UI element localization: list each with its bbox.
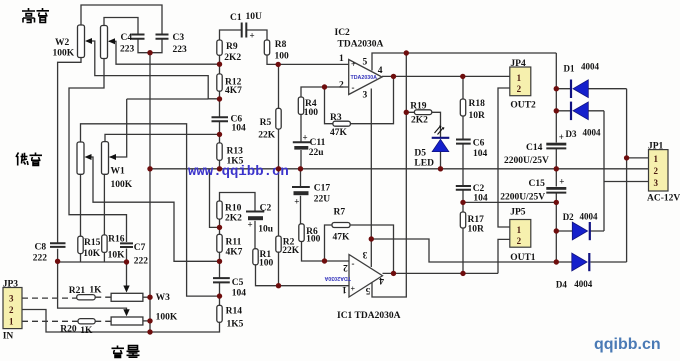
svg-text:2: 2	[517, 236, 522, 246]
capacitor C7	[120, 243, 133, 247]
resistor R9	[217, 40, 222, 55]
label C5 104	[232, 278, 247, 299]
wire C1 right to R8 top	[247, 30, 267, 40]
label W1 100K	[111, 167, 133, 191]
svg-text:104: 104	[473, 149, 488, 159]
label C6b 104	[473, 139, 488, 160]
capacitor C14 electrolytic	[546, 143, 566, 149]
svg-text:R13: R13	[227, 147, 244, 157]
svg-text:2: 2	[343, 262, 348, 272]
svg-text:3: 3	[363, 91, 368, 101]
wire C14 bottom to ground bus	[555, 149, 557, 169]
wire IC2 pin3 down / IC1 pin3 up shared column	[370, 89, 372, 268]
svg-text:1K: 1K	[89, 286, 102, 296]
wire C11 bottom to ground bus	[300, 150, 302, 169]
svg-text:1: 1	[517, 225, 522, 235]
svg-text:1: 1	[654, 154, 659, 164]
wire C15 bottom to negative rail D2 D4	[555, 193, 557, 262]
wire W2R bottom to C7 top	[69, 59, 127, 243]
label C2 10u	[248, 204, 274, 235]
wire R9 bottom / R12 / C6 / R13 column	[219, 55, 221, 169]
wire W2R top to C4 top	[104, 18, 138, 34]
wire W1L top loop to C5/R14 junction	[81, 124, 220, 296]
node bus LED	[438, 166, 443, 171]
svg-text:C2: C2	[260, 204, 272, 214]
label 音量 volume	[112, 346, 140, 358]
label R16 10K	[108, 235, 126, 261]
wiper arrow W3 gang B	[123, 309, 129, 316]
potentiometer W3 gang A	[111, 293, 143, 301]
wire R4 bottom to C11 top	[300, 114, 302, 142]
LED D5	[432, 126, 450, 152]
wire C4/C3 bottoms junction node	[138, 40, 162, 53]
resistor R11	[217, 234, 222, 252]
svg-text:C7: C7	[134, 243, 146, 253]
svg-text:C14: C14	[526, 143, 543, 153]
wire IC1 output line to JP5 pin2	[383, 239, 510, 273]
label JP3 IN	[3, 280, 19, 342]
label IC1 title	[337, 311, 401, 321]
svg-text:1K5: 1K5	[227, 320, 244, 330]
wire W1R top to C6/R13 junction	[105, 134, 220, 141]
svg-text:C4: C4	[121, 33, 133, 43]
wire R7 left leg to pin2 node	[325, 225, 333, 261]
node R3/R4 IC2 pin2	[322, 84, 327, 89]
wire W3b right to x150	[143, 320, 150, 322]
capacitor C3	[156, 35, 169, 39]
node D2 anode	[554, 228, 559, 233]
node R1/R2 junction	[276, 283, 281, 288]
wire R3 left leg up to pin2 node	[325, 87, 333, 124]
wire negative bus	[463, 201, 556, 203]
svg-text:TDA2030A: TDA2030A	[351, 75, 378, 81]
label R7 47K	[333, 208, 351, 243]
svg-text:+: +	[248, 220, 253, 230]
node R12/R13 junction	[217, 96, 222, 101]
svg-text:104: 104	[232, 124, 247, 134]
svg-text:LED: LED	[414, 159, 434, 169]
wire ground bus tap to R10/R11 junction	[210, 169, 220, 228]
label C2b 104	[473, 184, 488, 204]
svg-text:222: 222	[33, 254, 48, 264]
wire W2L bottom to C8 top	[58, 58, 81, 243]
resistor R21 horizontal	[77, 295, 96, 300]
potentiometer W2 gang A	[78, 25, 85, 58]
watermark www.qqibb.cn	[188, 164, 289, 180]
svg-text:4K7: 4K7	[226, 248, 243, 258]
svg-text:5: 5	[363, 58, 368, 68]
resistor R16	[102, 235, 107, 253]
resistor R14	[217, 305, 222, 322]
node out1 / R17	[460, 271, 465, 276]
resistor R19 horizontal	[414, 110, 431, 115]
node JP1 pin1	[624, 155, 629, 160]
potentiometer W2 gang B	[101, 26, 108, 59]
node out2 / R18	[460, 74, 465, 79]
svg-text:C2: C2	[473, 184, 485, 194]
label R9 2K2	[224, 42, 241, 63]
svg-text:R7: R7	[334, 208, 346, 218]
svg-text:100: 100	[259, 259, 274, 269]
wire AC phase A vertical x626	[626, 89, 628, 262]
svg-text:OUT2: OUT2	[510, 101, 536, 111]
label 低音 bass	[16, 153, 42, 166]
connector JP1	[649, 150, 669, 191]
svg-text:2: 2	[654, 166, 659, 176]
svg-text:2200U/25V: 2200U/25V	[504, 156, 549, 166]
wire R6 bottom to IC1 pin2	[302, 242, 350, 262]
node ground W3	[147, 329, 152, 334]
svg-text:22K: 22K	[282, 246, 300, 256]
node C5/R14 junction	[217, 293, 222, 298]
svg-text:22U: 22U	[314, 195, 331, 205]
resistor R5	[276, 108, 281, 129]
svg-text:1: 1	[517, 73, 522, 83]
svg-text:4K7: 4K7	[225, 86, 242, 96]
svg-text:4004: 4004	[580, 212, 599, 222]
svg-text:2200U/25V: 2200U/25V	[500, 193, 545, 203]
svg-text:R18: R18	[469, 99, 486, 109]
resistor R12	[217, 74, 222, 91]
svg-text:R17: R17	[468, 215, 485, 225]
wiper arrow W2 gang A	[85, 38, 92, 44]
svg-text:D5: D5	[414, 149, 426, 159]
svg-text:100K: 100K	[111, 180, 133, 190]
wire R20 to W3b dashed	[95, 320, 111, 322]
capacitor C6 top	[212, 117, 229, 121]
wire D3 row	[556, 110, 604, 112]
wire W2L wiper to R12/R13 junction	[87, 41, 220, 99]
wire AC phase B vertical x604	[603, 111, 605, 231]
svg-text:R16: R16	[108, 235, 125, 245]
capacitor C11 electrolytic	[293, 142, 310, 149]
wire C6b bottom through C2b R17 column	[462, 144, 464, 273]
svg-text:10R: 10R	[468, 225, 485, 235]
svg-text:C11: C11	[310, 138, 326, 148]
node C6/R13 junction	[217, 132, 222, 137]
svg-text:22K: 22K	[258, 131, 276, 141]
op-amp IC2 TDA2030A	[349, 60, 382, 95]
svg-text:D3: D3	[566, 129, 577, 139]
label R3 47K	[330, 113, 348, 138]
wire W2L top to C3 top	[81, 5, 162, 34]
pin numbers IC1 rotated	[342, 249, 384, 295]
svg-text:C5: C5	[232, 278, 244, 288]
wire W1R bottom to R16	[103, 174, 105, 235]
node pin3 junction	[369, 236, 374, 241]
label C14 2200U/25V	[504, 132, 564, 166]
svg-text:R19: R19	[410, 102, 427, 112]
resistor R15	[78, 236, 83, 253]
wire C8 bottom to W3b wiper line	[58, 249, 127, 315]
node top bus tap x406	[404, 50, 409, 55]
resistor R7 horizontal	[332, 223, 350, 228]
wire R18 column from output node	[462, 76, 464, 139]
node bus x150	[147, 166, 152, 171]
wire R15/R16 bottoms row to C8 and C7	[58, 252, 127, 262]
svg-text:JP4: JP4	[510, 59, 526, 69]
diode D2	[572, 222, 590, 240]
capacitor C1 electrolytic horizontal	[242, 23, 247, 38]
wire C2 bottom to R1 top	[254, 221, 256, 249]
label R5 22K	[258, 118, 276, 141]
svg-text:IN: IN	[3, 332, 14, 342]
wire R3 right to IC2 pin4 node	[350, 76, 393, 123]
svg-text:-: -	[352, 83, 355, 93]
node bus C11/C17	[298, 166, 303, 171]
node R19/LED tap	[404, 110, 409, 115]
wire R8 bottom to IC2 pin1	[267, 55, 349, 64]
svg-text:www.qqibb.cn: www.qqibb.cn	[188, 164, 289, 180]
svg-text:-: -	[352, 259, 355, 269]
wire D4 row	[556, 261, 626, 263]
label C6 104	[231, 115, 247, 134]
svg-text:2K2: 2K2	[224, 53, 241, 63]
node negative bus x556	[554, 200, 559, 205]
svg-text:223: 223	[120, 45, 135, 55]
resistor R4	[298, 97, 303, 114]
svg-text:C15: C15	[529, 179, 546, 189]
svg-text:4: 4	[378, 66, 383, 76]
label R2 22K	[282, 238, 300, 257]
svg-text:R11: R11	[226, 238, 242, 248]
node R9/R12 junction	[217, 61, 222, 66]
svg-text:R10: R10	[225, 204, 242, 214]
svg-text:10U: 10U	[246, 12, 263, 22]
svg-text:JP5: JP5	[510, 208, 526, 218]
wire C7 bottom to W3a wiper	[126, 249, 128, 291]
svg-text:R3: R3	[330, 113, 342, 123]
svg-text:+: +	[294, 197, 299, 207]
svg-text:4004: 4004	[583, 128, 602, 138]
resistor R1	[253, 249, 258, 265]
capacitor C6b	[456, 140, 471, 144]
resistor R6	[299, 224, 304, 242]
svg-text:100K: 100K	[53, 49, 75, 59]
node IC2 out / R3	[391, 74, 396, 79]
svg-text:100: 100	[304, 108, 319, 118]
wiper arrow W1 gang B	[109, 154, 116, 160]
wire R14 bottom to bottom ground line	[22, 310, 220, 333]
capacitor C2b	[456, 186, 471, 190]
svg-text:IC2: IC2	[335, 28, 351, 38]
node negative bus R17	[460, 200, 465, 205]
label R6 100	[306, 227, 321, 245]
label C4 223	[120, 33, 135, 55]
potentiometer W1 gang B	[102, 142, 109, 175]
svg-text:1K: 1K	[80, 326, 93, 336]
svg-text:10R: 10R	[469, 111, 486, 121]
svg-text:+: +	[351, 60, 356, 69]
wire W1L wiper to R11/C5 junction	[87, 157, 220, 261]
resistor R13	[217, 143, 222, 160]
resistor R20 horizontal	[78, 319, 95, 324]
wire JP3 pin3 row dashed to R21	[22, 297, 77, 299]
label C3 223	[173, 33, 188, 55]
svg-text:100K: 100K	[156, 313, 178, 323]
node W3b right	[147, 318, 152, 323]
svg-text:47K: 47K	[333, 233, 351, 243]
wire W1R wiper to y99 line	[110, 99, 127, 157]
label JP1 AC-12V	[647, 142, 680, 204]
label W2 100K	[53, 38, 75, 59]
svg-text:AC-12V: AC-12V	[647, 194, 680, 204]
capacitor C17 electrolytic	[292, 187, 310, 195]
node IC1 out / R7	[391, 271, 396, 276]
wire R5 column and R2 column	[278, 64, 280, 285]
label C7 222	[134, 243, 149, 267]
wire IC2 pin4 output to JP4 pin1	[382, 75, 510, 77]
svg-text:R9: R9	[226, 42, 238, 52]
svg-text:+: +	[559, 132, 564, 142]
wire W1L bottom to R15	[80, 174, 82, 236]
capacitor C8	[50, 243, 66, 247]
svg-text:OUT1: OUT1	[510, 253, 536, 263]
svg-text:R21: R21	[69, 286, 86, 296]
label R8 100	[275, 40, 290, 62]
capacitor C5	[213, 278, 230, 282]
svg-text:+: +	[351, 285, 356, 294]
svg-text:100: 100	[275, 52, 290, 62]
svg-text:C3: C3	[173, 33, 185, 43]
label R1 100	[259, 250, 274, 269]
label W3 100K	[156, 293, 178, 323]
node R6/R7 IC1 pin2	[322, 258, 327, 263]
svg-text:TDA2030A: TDA2030A	[338, 40, 384, 50]
label R13 1K5	[227, 147, 244, 167]
wire ground to C15 top	[555, 169, 557, 187]
svg-text:3: 3	[654, 178, 659, 188]
wire R9 top to C1 left	[220, 30, 242, 40]
wire R19 leads	[406, 112, 440, 137]
label R10 2K2	[225, 204, 242, 224]
svg-text:D1: D1	[564, 64, 575, 74]
node R10/R11 junction	[217, 225, 222, 230]
svg-text:W1: W1	[111, 167, 126, 177]
wire node x150 vertical to volume pot	[149, 53, 151, 332]
wire D2 row	[556, 230, 604, 232]
svg-text:4: 4	[379, 275, 384, 285]
capacitor C2 electrolytic	[246, 212, 264, 221]
wire R1/R2 bottoms to IC1 pin1	[256, 265, 350, 286]
wire y99 line from W1R wiper to R12 bottom junction	[127, 98, 209, 100]
capacitor C15 electrolytic	[546, 187, 566, 193]
label D4 4004	[556, 279, 593, 290]
wire R11 bottom / C5 / R14 column	[219, 252, 221, 305]
label R20 1K	[60, 325, 93, 337]
watermark qqibb.cn bottom right	[594, 336, 661, 353]
connector JP5	[510, 220, 531, 248]
svg-text:W3: W3	[156, 293, 171, 303]
wire main ground bus	[150, 168, 649, 170]
svg-text:TDA2030A: TDA2030A	[324, 275, 351, 281]
node C7 bottom	[124, 259, 129, 264]
svg-text:1: 1	[342, 284, 347, 294]
resistor R2	[276, 236, 281, 252]
svg-text:JP3: JP3	[3, 280, 19, 290]
diode D3	[571, 102, 588, 121]
label D1 4004	[564, 62, 600, 74]
svg-text:D4: D4	[556, 280, 567, 290]
connector JP4	[510, 67, 531, 96]
wire pin3 node to negative rail	[371, 239, 556, 262]
wire R21 to W3a dashed	[95, 296, 111, 298]
label R17 10R	[468, 215, 485, 235]
potentiometer W3 gang B	[111, 317, 143, 325]
wire +V drop x406 with IC1 pin5 return	[372, 53, 406, 297]
svg-text:+: +	[303, 133, 308, 143]
label D3 4004	[566, 128, 602, 140]
node R11/C5 junction	[217, 259, 222, 264]
node bus R13	[217, 166, 222, 171]
wire W3a right to x150	[143, 296, 150, 298]
svg-text:C17: C17	[314, 184, 331, 194]
svg-text:3: 3	[9, 294, 14, 304]
wire R4 top to IC2 pin2	[301, 87, 349, 97]
wire JP1 pin3 stub	[604, 181, 649, 183]
svg-text:2: 2	[9, 305, 14, 315]
wire JP4 pin2 / JP5 pin1 ground drop	[498, 88, 510, 227]
svg-text:JP1: JP1	[648, 142, 664, 152]
wire +V rail x556 top section	[555, 53, 557, 143]
svg-text:10K: 10K	[83, 249, 101, 259]
wire IC2 pin5 to top supply bus	[372, 53, 556, 71]
svg-text:C8: C8	[35, 243, 47, 253]
svg-text:W2: W2	[55, 38, 70, 48]
svg-text:2K2: 2K2	[411, 116, 428, 126]
wiper arrow W1 gang A	[85, 154, 92, 160]
node D4 anode	[554, 259, 559, 264]
svg-text:10K: 10K	[108, 251, 126, 261]
wire W2R wiper to R9/R12 junction	[109, 41, 220, 64]
wire D1 row to JP1 pin1	[556, 88, 626, 90]
label C1 10U	[230, 12, 262, 41]
op-amp IC1 TDA2030A flipped	[324, 255, 382, 298]
label R15 10K	[83, 238, 101, 259]
capacitor C4	[132, 35, 145, 39]
svg-text:100: 100	[306, 235, 321, 245]
label R19 2K2	[410, 102, 428, 126]
label D5 LED	[414, 149, 434, 169]
label R11 4K7	[226, 238, 243, 258]
pin numbers IC2	[339, 54, 383, 101]
svg-text:R15: R15	[84, 238, 101, 248]
svg-text:+: +	[559, 177, 564, 187]
resistor R18	[460, 99, 465, 116]
label C15 2200U/25V	[500, 177, 564, 203]
svg-text:2: 2	[517, 84, 522, 94]
label R14 1K5	[226, 307, 244, 330]
diode D4	[572, 253, 590, 271]
svg-text:R8: R8	[275, 40, 287, 50]
wire R10 top / C2 top link	[220, 193, 256, 235]
wire C17 column below bus	[300, 169, 302, 224]
wiper arrow W2 gang B	[108, 38, 115, 44]
svg-text:C1: C1	[230, 13, 242, 23]
svg-text:2: 2	[339, 81, 344, 91]
svg-text:1: 1	[339, 54, 344, 64]
node D3 +V	[554, 108, 559, 113]
svg-text:3: 3	[362, 249, 367, 259]
label C11 22u	[303, 133, 326, 159]
label R4 100	[304, 99, 319, 118]
svg-text:4004: 4004	[581, 62, 600, 72]
connector JP3	[3, 288, 22, 329]
svg-text:222: 222	[134, 257, 149, 267]
svg-text:C6: C6	[473, 139, 485, 149]
svg-text:4004: 4004	[574, 279, 593, 289]
label R12 4K7	[225, 78, 242, 97]
